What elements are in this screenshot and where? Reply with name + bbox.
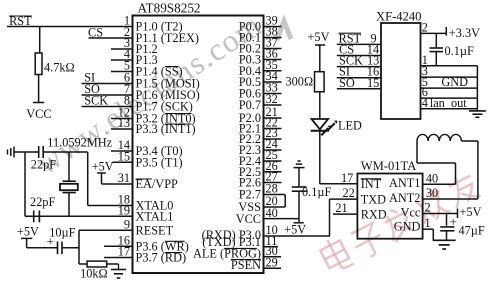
svg-text:0.1µF: 0.1µF (445, 44, 474, 58)
svg-text:15: 15 (367, 76, 379, 90)
wire pin 34 of U1 (264, 81, 282, 83)
wire pin 21 of U1 (264, 117, 282, 119)
wire pin 4 of U2 (421, 108, 478, 110)
wire pin 6 of U2 (421, 97, 478, 99)
wire pin 3 of U1 (111, 48, 133, 50)
svg-text:31: 31 (118, 171, 130, 185)
svg-text:2: 2 (425, 201, 431, 215)
resistor R1 4.7k (35, 53, 42, 75)
svg-text:300Ω: 300Ω (286, 75, 314, 89)
svg-text:9: 9 (124, 218, 130, 232)
wire ANT2 rail down (477, 141, 479, 199)
wire pin 14 of U1 (111, 150, 133, 152)
svg-text:21: 21 (335, 201, 347, 215)
svg-text:lan_out: lan_out (430, 96, 467, 110)
wire pin 39 of U1 (264, 26, 282, 28)
wire ANT2 pin 30 of U3 (423, 198, 478, 200)
wire R2 to ground (107, 263, 119, 265)
svg-text:+5V: +5V (308, 30, 330, 44)
ground above C4 (294, 167, 305, 169)
ground at U2 right (476, 109, 478, 111)
wire pin 38 of U1 (264, 37, 282, 39)
wire C2 to XTAL1 pin 19 (39, 215, 132, 217)
wire pin 8 of U1 (82, 106, 133, 108)
wire C4 to +5V terminal (298, 191, 300, 223)
svg-text:22pF: 22pF (31, 158, 56, 172)
svg-text:11.0592MHz: 11.0592MHz (47, 135, 112, 149)
svg-text:4.7kΩ: 4.7kΩ (44, 61, 75, 75)
svg-text:SO: SO (339, 76, 355, 90)
svg-text:19: 19 (118, 204, 130, 218)
wire node down to XTAL0 pin 18 (87, 152, 89, 206)
svg-text:22: 22 (343, 186, 355, 200)
wire pin 3 of U2 (421, 76, 478, 78)
svg-text:Vcc: Vcc (401, 206, 421, 220)
wire ANT1 pin 40 of U3 (423, 183, 456, 185)
power terminal +5V bar EA (97, 172, 106, 174)
wire LED cathode down to INT line (319, 131, 321, 184)
wire pin 33 of U1 (264, 93, 282, 95)
op-amp U2: XF-4240 module body (381, 23, 421, 119)
power terminal VCC bar (33, 102, 44, 104)
wire GND pin 1 of U3 (423, 228, 434, 230)
wire pin 18 of U1 (88, 205, 133, 207)
wire ground to C1 (14, 151, 38, 153)
wire ground rail down (24, 152, 26, 216)
svg-text:40: 40 (266, 206, 278, 220)
wire pin 19 of U1 (25, 215, 133, 217)
svg-text:ANT1: ANT1 (389, 176, 420, 190)
wire pin 40 of U1 (264, 218, 299, 220)
svg-text:+5V: +5V (17, 225, 39, 239)
wire RST to resistor R1 (39, 27, 41, 54)
wire RXD pin 21 of U3 (333, 213, 357, 215)
wire C1 to XTAL0 node (43, 151, 87, 153)
crystal Y1 (63, 180, 76, 182)
svg-text:XTAL1: XTAL1 (136, 210, 174, 224)
svg-text:+5V: +5V (284, 223, 306, 237)
svg-text:+5V: +5V (460, 205, 482, 219)
wire pin 22 of U1 (264, 128, 282, 130)
wire pin 11 of U1 (264, 246, 279, 248)
wire pin 30 of U1 (264, 256, 282, 258)
svg-text:30: 30 (426, 186, 438, 200)
wire pin 15 of U2 (337, 88, 381, 90)
ground left of crystal (7, 150, 9, 155)
svg-text:LED: LED (338, 119, 362, 133)
svg-text:0.1µF: 0.1µF (302, 185, 331, 199)
svg-text:RXD: RXD (361, 208, 387, 222)
wire pin 15 of U1 (113, 161, 133, 163)
wire pin 2 of U1 (89, 37, 133, 39)
wire C3 to reset node (62, 247, 79, 249)
op-amp U1: AT89S8252 microcontroller body (133, 16, 264, 274)
wire TXD pin 22 of U3 (330, 198, 358, 200)
capacitor C1 22pF top plates (38, 146, 40, 158)
wire pin 16 of U1 (104, 245, 133, 247)
svg-text:32: 32 (266, 92, 278, 106)
svg-text:+5V: +5V (92, 160, 114, 174)
inductor L1 antenna coil (417, 134, 461, 141)
wire pin 29 of U1 (264, 267, 282, 269)
wire pin 10 of U1 (264, 235, 331, 237)
wire GND down (432, 229, 434, 240)
wire to resistor R2 (79, 263, 87, 265)
wire pin 5 of U2 (421, 87, 478, 89)
svg-text:10kΩ: 10kΩ (80, 267, 108, 281)
wire pin 2 of U2 to +3.3V (421, 32, 447, 34)
svg-text:2: 2 (422, 20, 428, 34)
capacitor C3 10uF plates (57, 242, 59, 255)
wire to capacitor C3 (27, 247, 58, 249)
wire pin 6 of U1 (82, 83, 133, 85)
wire pin 37 of U1 (264, 48, 282, 50)
svg-text:+3.3V: +3.3V (449, 26, 480, 40)
wire pin 26 of U1 (264, 171, 282, 173)
wire +5V to EA pin 31 (101, 173, 103, 184)
capacitor C4 0.1uF plates (292, 186, 307, 188)
wire pin 28 of U1 (264, 194, 286, 196)
svg-text:CS: CS (88, 26, 103, 40)
power terminal +5V bar U3 (457, 209, 459, 219)
capacitor C5 0.1uF plates (430, 47, 444, 49)
svg-text:XF-4240: XF-4240 (376, 10, 421, 24)
wire pin 35 of U1 (264, 70, 282, 72)
wire pin 20 of U1 (264, 206, 286, 208)
wire pin 32 of U1 (264, 104, 282, 106)
svg-text:GND: GND (394, 219, 421, 233)
wire pin 23 of U1 (264, 138, 282, 140)
svg-text:13: 13 (118, 116, 130, 130)
svg-text:VCC: VCC (26, 107, 51, 121)
wire Vcc pin 2 of U3 (423, 213, 458, 215)
wire pin 1 of U1 (7, 26, 133, 28)
wire coil right to rail (461, 140, 478, 142)
wire ANT1 riser (455, 163, 457, 184)
svg-text:TXD: TXD (361, 192, 386, 206)
svg-text:4: 4 (422, 96, 428, 110)
wire pin 4 of U1 (111, 59, 133, 61)
wire +5V down to C3 (26, 238, 28, 247)
power terminal +3.3V bar (445, 27, 447, 36)
power terminal +5V bar VCC (294, 222, 304, 224)
power terminal +5V bar LED (315, 44, 325, 46)
wire coil left leg (416, 141, 418, 163)
wire pin 14 of U2 (337, 55, 381, 57)
wire pin 13 of U2 (337, 66, 381, 68)
svg-text:VCC: VCC (236, 212, 261, 226)
svg-text:17: 17 (118, 245, 130, 259)
svg-text:SCK: SCK (84, 94, 108, 108)
capacitor C6 47uF plates (440, 226, 454, 228)
capacitor C2 22pF bottom plates (33, 211, 35, 223)
wire pin 1 of U2 (421, 65, 478, 67)
wire R3 to LED (319, 92, 321, 118)
wire Vcc to C6 (446, 214, 448, 226)
wire ground to C4 (298, 168, 300, 187)
wire reset node vertical (78, 230, 80, 264)
ground below R2 (118, 264, 120, 270)
svg-text:15: 15 (118, 150, 130, 164)
wire C6 to ground (446, 231, 448, 241)
svg-text:ANT2: ANT2 (389, 191, 420, 205)
wire pin 31 of U1 (102, 183, 133, 185)
LED D1 (312, 119, 329, 129)
wire INT pin 17 of U3 (320, 183, 358, 185)
wire +5V to R3 (319, 45, 321, 72)
svg-text:29: 29 (266, 256, 278, 270)
wire pin 16 of U2 (337, 77, 381, 79)
svg-text:22pF: 22pF (30, 195, 55, 209)
wire pin 13 of U1 (111, 128, 133, 130)
svg-text:1: 1 (425, 216, 431, 230)
wire pin 25 of U1 (264, 160, 282, 162)
wire rail to C2 (25, 215, 34, 217)
wire R1 to VCC (38, 75, 40, 103)
wire crystal Y1 bottom to XTAL1 rail (68, 193, 70, 217)
wire pin 9 of U1 (79, 229, 133, 231)
svg-text:GND: GND (441, 75, 468, 89)
svg-text:P3.5 (T1): P3.5 (T1) (136, 156, 183, 170)
wire C5 to pin 1 line (435, 52, 437, 66)
wire pin 27 of U1 (264, 182, 282, 184)
wire pin 17 of U1 (104, 257, 133, 259)
svg-text:P0.7: P0.7 (239, 98, 261, 112)
wire P2.7 to VSS join (284, 195, 286, 208)
wire pin 7 of U1 (82, 94, 133, 96)
svg-text:47µF: 47µF (459, 224, 485, 238)
resistor R3 300 ohm (315, 72, 325, 92)
svg-text:40: 40 (426, 171, 438, 185)
wire TXD riser to P3.0 (329, 199, 331, 236)
wire U2 right rail to ground (476, 66, 478, 109)
resistor R2 10k (87, 261, 107, 267)
svg-text:WM-01TA: WM-01TA (361, 159, 417, 173)
wire ANT1 horizontal to coil (417, 162, 456, 164)
svg-text:+: + (47, 233, 54, 248)
wire pin 12 of U1 (111, 118, 133, 120)
wire pin 9 of U2 (337, 43, 381, 45)
svg-text:AT89S8252: AT89S8252 (138, 1, 201, 16)
svg-text:RESET: RESET (136, 224, 174, 238)
wire pin 36 of U1 (264, 59, 282, 61)
ground below U3 (433, 239, 456, 241)
wire +3.3V rail to C5 (435, 33, 437, 48)
power terminal +5V bar reset (21, 237, 32, 239)
wire pin 24 of U1 (264, 149, 282, 151)
wire pin 5 of U1 (111, 71, 133, 73)
op-amp U3: WM-01TA module body (357, 174, 422, 239)
svg-text:17: 17 (341, 171, 353, 185)
wire to crystal Y1 top (68, 152, 70, 181)
